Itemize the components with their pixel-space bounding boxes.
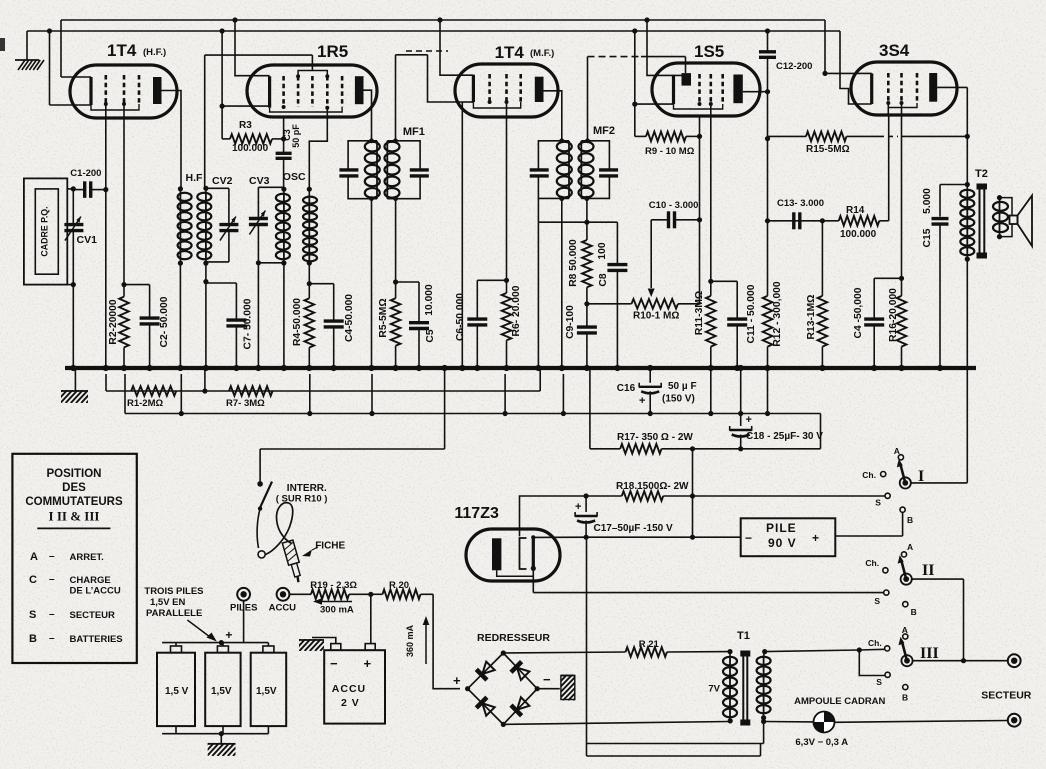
resistor R5-5M xyxy=(391,282,401,368)
terminal SECTEUR top xyxy=(1008,654,1021,667)
ground chassis top-left xyxy=(15,31,44,70)
svg-text:S: S xyxy=(876,677,882,687)
switch I contact S xyxy=(875,493,890,507)
label C16 50uF (150V) xyxy=(617,381,697,405)
switch II contact A xyxy=(901,542,913,557)
tube V6 cathode plate xyxy=(492,538,501,570)
label R14 100.000 xyxy=(840,205,877,240)
wire heater return bottom xyxy=(587,744,761,757)
wire L1 top HT/grid line xyxy=(61,20,825,77)
diode D2 xyxy=(511,662,530,681)
svg-text:H.F: H.F xyxy=(186,172,204,184)
tube V4 diode plate square xyxy=(682,73,692,86)
coil MF2 secondary xyxy=(579,141,594,199)
svg-text:50 pF: 50 pF xyxy=(291,124,301,148)
lamp AMPOULE CADRAN xyxy=(814,712,835,733)
svg-text:1,5 V: 1,5 V xyxy=(165,686,189,697)
wire switch I pivot to T2 line xyxy=(911,482,967,484)
tube V3 grid2 xyxy=(505,74,508,102)
battery ACCU 2V box xyxy=(324,644,385,724)
tube V2 grid2 xyxy=(297,76,300,107)
wire line B right end drop xyxy=(820,414,822,449)
wire V3 anode to MF2 xyxy=(544,91,562,141)
resistor R16-20,000 xyxy=(897,278,907,368)
label C8 100 xyxy=(597,242,609,286)
svg-text:100.000: 100.000 xyxy=(232,143,269,154)
wire R17 junction drop xyxy=(690,449,695,540)
diode D4 xyxy=(511,696,530,715)
resistor R13-1M xyxy=(818,296,828,368)
legend C CHARGE xyxy=(29,574,121,597)
svg-text:R3: R3 xyxy=(239,120,252,131)
wire V3 cathode return to bus xyxy=(462,102,473,368)
wire V2 anode to MF1 xyxy=(364,90,372,139)
trimmer cap MF1 primary xyxy=(339,141,377,199)
capacitor C11-50.000 xyxy=(727,281,747,368)
tube V3 grid1 xyxy=(488,74,491,102)
label V1 1T4 (H.F.) xyxy=(107,41,166,60)
coil MF2 primary xyxy=(557,141,572,199)
capacitor C13-3.000 xyxy=(768,212,826,229)
label C4 -50,000 xyxy=(853,287,864,338)
wire T1 sec top to switch III S xyxy=(859,650,885,676)
svg-text:(150 V): (150 V) xyxy=(662,394,695,405)
frame antenna CADRE P.Q. outer xyxy=(24,178,67,284)
svg-text:C1-200: C1-200 xyxy=(70,168,101,179)
label R15-5M xyxy=(806,144,850,155)
svg-text:1,5V: 1,5V xyxy=(256,686,277,697)
svg-text:+: + xyxy=(812,531,819,545)
resistor R1-2M xyxy=(131,386,176,396)
wire MF2 sec top to 1S5 diode xyxy=(588,57,686,141)
label R11-3M xyxy=(694,291,705,335)
tube V6 heater bar xyxy=(531,535,536,571)
svg-text:Ch.: Ch. xyxy=(865,558,879,568)
ground bus xyxy=(65,366,976,370)
wire V4 anode lead xyxy=(743,89,770,94)
wire line B xyxy=(125,374,821,416)
svg-text:R9 - 10 MΩ: R9 - 10 MΩ xyxy=(645,146,695,157)
wire MF1 sec bottom to R5 node xyxy=(369,138,398,284)
legend B BATTERIES xyxy=(29,633,123,645)
svg-text:DE L’ACCU: DE L’ACCU xyxy=(70,586,121,597)
label C15 5.000 xyxy=(922,188,933,248)
battery + node xyxy=(219,628,233,645)
label MF2 xyxy=(593,125,615,137)
label R5-5M xyxy=(378,298,389,337)
svg-text:ACCU: ACCU xyxy=(269,603,297,614)
label R8 50.000 xyxy=(568,239,579,287)
label V3 1T4 (M.F.) xyxy=(495,43,555,62)
label INTERR (SUR R10) xyxy=(276,483,328,505)
switch III contact B xyxy=(902,685,908,703)
label C2-50000 xyxy=(159,296,170,347)
wire V6 plate riser xyxy=(520,496,587,536)
svg-text:B: B xyxy=(911,607,917,617)
resistor R11-3M xyxy=(706,281,716,416)
tube V4 grid3 xyxy=(721,74,724,104)
svg-text:POSITION: POSITION xyxy=(47,468,102,480)
wire line A stub xyxy=(204,370,206,391)
wire bridge top to T1 xyxy=(503,652,729,653)
wire grid1 column to C1 node xyxy=(105,104,107,189)
resistor R17-350 xyxy=(590,444,821,454)
svg-text:C7- 50.000: C7- 50.000 xyxy=(243,298,254,349)
wire V3 grid2 column to R6 xyxy=(506,102,508,280)
resistor R7-3M xyxy=(229,386,273,396)
wire C1 node to bus xyxy=(105,189,107,368)
wire L1 to V4 diode xyxy=(644,17,681,75)
tube V4 internal bottom ties xyxy=(674,102,723,109)
label OSC xyxy=(283,171,306,183)
legend S SECTEUR xyxy=(29,609,115,621)
svg-text:R8 50.000: R8 50.000 xyxy=(568,239,579,287)
svg-text:−: − xyxy=(543,672,551,687)
wire switch II pivot right xyxy=(912,579,966,663)
wire bus col MF2 bracket xyxy=(537,222,539,368)
svg-text:A: A xyxy=(894,446,900,456)
wire CV3 top to OSC coil xyxy=(258,186,284,188)
svg-text:OSC: OSC xyxy=(283,171,306,183)
tube V6 cathode lead xyxy=(497,570,534,576)
wire bridge bottom to T1 xyxy=(503,722,730,725)
resistor R21 xyxy=(626,647,667,657)
svg-text:TROIS PILES: TROIS PILES xyxy=(144,586,203,597)
capacitor C17 electrolytic xyxy=(575,496,597,537)
svg-text:5.000: 5.000 xyxy=(922,188,933,214)
wire L1 to V2 filament top xyxy=(232,17,269,75)
svg-text:+: + xyxy=(364,656,372,671)
tube V2 1R5 envelope xyxy=(247,65,377,117)
tube V3 1T4(M.F.) envelope xyxy=(455,64,558,117)
resistor R2-20000 xyxy=(119,282,129,368)
wire R20 down to bridge xyxy=(433,594,460,688)
svg-text:+: + xyxy=(639,395,645,407)
wire OSC primary bottom to bus xyxy=(256,260,284,368)
label V2 1R5 xyxy=(317,42,348,61)
svg-text:1S5: 1S5 xyxy=(694,42,724,61)
wire L2 to V2 filament bottom xyxy=(220,28,270,138)
wire V3 input drop xyxy=(428,55,463,102)
coil HF secondary xyxy=(197,186,211,266)
svg-text:C11 - 50.000: C11 - 50.000 xyxy=(746,284,757,343)
wire C17 to PILE xyxy=(533,535,740,540)
wire V5 anode to T2 xyxy=(937,87,967,184)
label switch I xyxy=(918,468,924,485)
svg-text:C6-50.000: C6-50.000 xyxy=(455,293,466,341)
wire R14 riser to V5 grid xyxy=(888,115,890,221)
node L2-tube1 xyxy=(47,28,52,105)
svg-text:B: B xyxy=(907,515,913,525)
label R17-350 xyxy=(617,432,693,443)
coil MF1 primary xyxy=(365,141,380,199)
label PILES ACCU xyxy=(230,603,296,614)
tube V2 anode plate xyxy=(355,76,364,104)
wire R11 node to C11 xyxy=(711,280,737,282)
label C12-200 xyxy=(776,61,812,72)
tube V2 grid4 xyxy=(326,76,329,107)
svg-text:6,3V − 0,3 A: 6,3V − 0,3 A xyxy=(795,737,848,748)
trimmer cap MF1 secondary xyxy=(387,141,429,199)
tube V5 grid2 xyxy=(900,73,903,103)
label CADRE P.Q. xyxy=(40,206,50,256)
core T2 xyxy=(977,184,988,259)
capacitor C16 electrolytic xyxy=(639,368,661,416)
bus junction dots xyxy=(70,365,943,371)
resistor R18 1500 xyxy=(586,491,888,501)
svg-text:100: 100 xyxy=(597,242,608,259)
label R18.1500-2W xyxy=(616,481,689,492)
svg-text:C: C xyxy=(29,574,37,586)
label C1-200 xyxy=(70,168,101,179)
svg-text:1T4: 1T4 xyxy=(495,43,525,62)
coil T2 primary xyxy=(960,182,974,262)
tube V1 anode plate xyxy=(153,77,162,104)
svg-text:INTERR.: INTERR. xyxy=(287,483,327,494)
core T1 xyxy=(740,651,750,726)
label T2 xyxy=(975,168,988,180)
svg-text:1,5V: 1,5V xyxy=(211,686,232,697)
tube V5 grid1 xyxy=(887,73,890,103)
switch II contact S xyxy=(874,590,889,606)
svg-text:7V: 7V xyxy=(708,684,720,695)
svg-text:–: – xyxy=(49,609,55,620)
variable capacitor CV1 xyxy=(64,189,83,285)
svg-text:R14: R14 xyxy=(846,205,865,216)
variable capacitor CV2 xyxy=(219,188,238,262)
label 117Z3 xyxy=(454,505,499,522)
svg-text:REDRESSEUR: REDRESSEUR xyxy=(477,632,550,644)
label switch II xyxy=(922,562,934,579)
tube V5 internal bottom ties xyxy=(886,101,917,108)
svg-text:50 µ F: 50 µ F xyxy=(668,381,697,392)
label R1-2M xyxy=(127,398,164,409)
terminal PILES xyxy=(237,588,250,601)
svg-text:R11-3MΩ: R11-3MΩ xyxy=(694,291,705,335)
label V5 3S4 xyxy=(879,41,910,60)
label R12 - 300.000 xyxy=(772,281,783,347)
label C18 - 25uF- 30V xyxy=(746,431,823,442)
svg-text:C10 - 3.000: C10 - 3.000 xyxy=(649,200,699,211)
wire tube1 filament top from L1 xyxy=(61,76,91,78)
wire MF1 sec top to V3 input xyxy=(393,55,427,143)
tube V6 117Z3 envelope xyxy=(466,529,560,581)
tube V3 filament bar xyxy=(472,75,475,102)
wire V2 grid1 column xyxy=(283,117,285,153)
label C13-3.000 xyxy=(777,198,824,209)
capacitor C5 10.000 xyxy=(409,282,429,368)
tube V5 grid3 xyxy=(916,73,919,103)
capacitor C10-3.000 xyxy=(651,211,699,228)
tube V4 grid1 xyxy=(698,74,701,104)
wire V4 grid2 column to R11 xyxy=(708,104,713,284)
wire CV1 column to bus xyxy=(72,285,74,368)
svg-text:R10-1 MΩ: R10-1 MΩ xyxy=(633,311,679,322)
label C11 - 50.000 xyxy=(746,284,757,343)
wire T1 sec bottom joint xyxy=(761,718,766,744)
svg-text:C16: C16 xyxy=(617,383,636,394)
label R20 xyxy=(389,580,409,591)
tube V2 internal grid2+4 tie xyxy=(296,55,329,78)
wire C10 to R10 wiper xyxy=(648,220,655,297)
label R2-20000 xyxy=(108,299,119,344)
svg-text:III: III xyxy=(920,645,939,662)
label H.F xyxy=(186,172,204,184)
label FICHE xyxy=(302,541,346,557)
resistor R9-10M xyxy=(635,132,702,142)
resistor R4-50.000 xyxy=(305,284,315,368)
diode D3 xyxy=(476,697,495,716)
wire heater return top xyxy=(587,537,764,743)
label R21 xyxy=(639,639,660,650)
svg-text:R6- 20.000: R6- 20.000 xyxy=(511,285,522,336)
legend box xyxy=(12,454,136,663)
switch II contact B xyxy=(903,602,917,617)
resistor R15-5M xyxy=(768,132,970,142)
legend roman numerals xyxy=(49,509,100,524)
wire node222 line xyxy=(538,221,617,223)
wire MF2 primary bottom to bus xyxy=(559,196,564,368)
tube V2 grid1 xyxy=(282,76,285,107)
svg-text:−: − xyxy=(745,531,752,545)
svg-text:CV2: CV2 xyxy=(212,175,233,187)
resistor R20 xyxy=(371,590,433,600)
svg-text:C9-100: C9-100 xyxy=(565,305,576,339)
wire HF sec bottom column to bus xyxy=(203,263,208,368)
wire interrupter drop xyxy=(259,449,261,481)
svg-text:R13-1MΩ: R13-1MΩ xyxy=(806,295,817,340)
svg-text:3S4: 3S4 xyxy=(879,41,910,60)
tube V4 grid2 xyxy=(709,74,712,104)
switch III contact A xyxy=(902,625,908,639)
wire grid2 column to R2 xyxy=(123,104,125,285)
tube V6 plate bracket xyxy=(520,538,527,569)
svg-text:R5-5MΩ: R5-5MΩ xyxy=(378,298,389,337)
wire R13 column xyxy=(821,221,823,296)
arrow 300mA xyxy=(313,598,354,615)
label ACCU 2V signs xyxy=(330,656,372,709)
svg-text:1R5: 1R5 xyxy=(317,42,348,61)
variable capacitor CV3 xyxy=(249,187,268,368)
wire V4 grid1 column xyxy=(697,116,702,304)
svg-text:T1: T1 xyxy=(737,630,750,642)
trimmer cap MF2 primary xyxy=(530,138,569,200)
svg-text:C5: C5 xyxy=(425,329,436,342)
label CV1 xyxy=(77,234,98,246)
label C5 10.000 xyxy=(424,284,436,343)
svg-text:A: A xyxy=(907,542,913,552)
svg-text:R15-5MΩ: R15-5MΩ xyxy=(806,144,850,155)
wire PILE+ to switch I B xyxy=(835,510,902,536)
wire T1 sec top to switch III xyxy=(765,647,885,652)
svg-text:R18.1500Ω- 2W: R18.1500Ω- 2W xyxy=(616,481,689,492)
battery PILE 90V box xyxy=(741,518,836,556)
tube V1 internal bottom ties xyxy=(91,102,139,110)
switch INTERR contact xyxy=(257,481,263,487)
wire R5 node to C5 xyxy=(396,281,419,283)
label 7V xyxy=(708,684,720,695)
tube V3 anode plate xyxy=(535,77,544,102)
resistor R6-20.000 xyxy=(502,280,512,368)
label SECTEUR xyxy=(981,690,1032,702)
wire R17 left riser xyxy=(589,368,591,449)
wire V5 grid2 column to R16 node xyxy=(899,103,904,281)
wire L2 filament line xyxy=(27,30,840,32)
svg-text:–: – xyxy=(49,574,55,585)
wire ACCU battery + lead xyxy=(370,594,372,643)
label C17-50uF-150V xyxy=(594,523,673,534)
label R10-1M xyxy=(633,311,679,322)
wire bus to interrupter xyxy=(260,365,447,449)
svg-text:1,5V EN: 1,5V EN xyxy=(150,597,186,608)
wire AVC line A xyxy=(106,368,540,394)
svg-text:SECTEUR: SECTEUR xyxy=(70,610,116,621)
wire L1 end to V5 filament top xyxy=(822,20,871,76)
capacitor C9-100 xyxy=(577,304,597,368)
tube V5 3S4 envelope xyxy=(851,62,957,115)
wire MF2 sec bottom node xyxy=(584,196,589,225)
svg-text:C17–50µF -150 V: C17–50µF -150 V xyxy=(594,523,673,534)
svg-text:ARRET.: ARRET. xyxy=(70,552,104,563)
svg-text:R4-50.000: R4-50.000 xyxy=(292,298,303,346)
svg-text:–: – xyxy=(49,633,55,644)
tube V3 internal bottom ties xyxy=(473,100,520,108)
battery cell 1 1,5V xyxy=(157,643,195,727)
svg-text:+: + xyxy=(225,628,232,642)
label C3 50pF xyxy=(282,124,301,148)
speaker xyxy=(1000,196,1033,247)
svg-text:−: − xyxy=(330,656,338,671)
svg-text:S: S xyxy=(875,498,881,508)
svg-text:II: II xyxy=(922,562,934,579)
svg-text:B: B xyxy=(902,693,908,703)
svg-text:R 20: R 20 xyxy=(389,580,409,591)
svg-text:C15: C15 xyxy=(922,228,933,247)
wire L1 to V3 filament top xyxy=(437,17,473,75)
battery cell 3 1,5V xyxy=(251,643,287,727)
wire ampoule line xyxy=(764,721,1008,723)
wire bridge - to chassis xyxy=(537,674,599,701)
svg-text:C2- 50.000: C2- 50.000 xyxy=(159,296,170,347)
label R4-50.000 xyxy=(292,298,303,346)
wire cadre top to CV1 node xyxy=(67,186,76,191)
wire R4 node to C4a xyxy=(309,283,333,285)
coil T2 secondary xyxy=(993,195,1008,239)
svg-text:360 mA: 360 mA xyxy=(405,624,415,657)
wire cadre bottom to CV1 column xyxy=(67,282,76,287)
svg-text:DES: DES xyxy=(62,482,86,494)
switch III pivot+blade xyxy=(899,637,913,667)
svg-text:R19 - 2,3Ω: R19 - 2,3Ω xyxy=(310,580,357,591)
svg-text:(M.F.): (M.F.) xyxy=(530,48,554,59)
capacitor C4-50.000 (osc) xyxy=(324,284,344,368)
capacitor C3 50pF xyxy=(276,153,292,189)
label C6-50.000 xyxy=(455,293,466,341)
switch I pivot+blade xyxy=(897,459,911,489)
wire V5 grid1 column to R14 xyxy=(887,103,889,115)
wire HF primary bottom to bus xyxy=(179,263,181,368)
svg-text:+: + xyxy=(575,501,581,513)
svg-text:PARALLELE: PARALLELE xyxy=(146,608,202,619)
label C7-50.000 xyxy=(243,298,254,349)
wire battery bottoms xyxy=(162,726,268,736)
label PILE 90V xyxy=(745,521,819,550)
wire MF2 bracket stub xyxy=(537,198,539,222)
svg-text:CV3: CV3 xyxy=(249,175,270,187)
ground battery xyxy=(197,734,247,756)
svg-text:I II & III: I II & III xyxy=(49,509,100,524)
label T1 xyxy=(737,630,750,642)
